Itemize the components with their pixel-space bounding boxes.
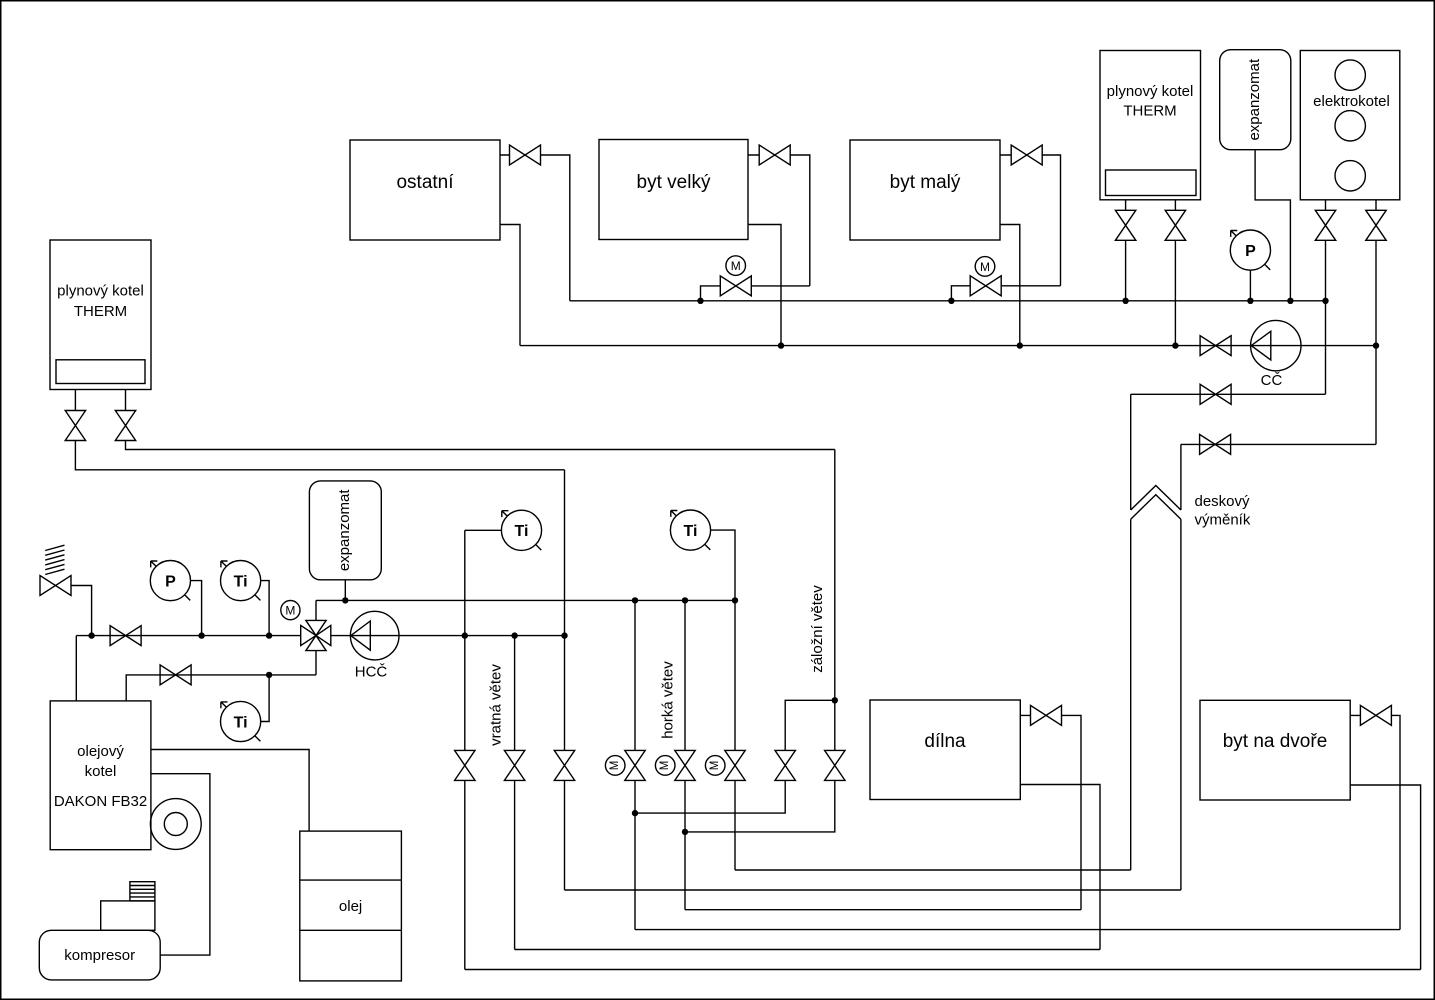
valve row branch 5 — [825, 750, 845, 780]
junction dot gauge P left — [198, 632, 204, 638]
wire dilna return line — [1020, 785, 1100, 950]
wire right gas boiler stubs and drops — [1126, 200, 1176, 346]
junction dot HCC line vratna — [462, 632, 468, 638]
thermometer Ti2 — [221, 701, 261, 741]
wire horka vetev column 1 — [634, 600, 636, 929]
wire bottom bus 1 — [735, 869, 1131, 871]
svg-text:plynový kotel: plynový kotel — [57, 283, 144, 300]
svg-text:byt na dvoře: byt na dvoře — [1223, 731, 1328, 752]
junction dot line B at elektrokotel drop — [1373, 342, 1379, 348]
motor symbol M of mixing valve — [281, 601, 300, 620]
junction dot line A at gauge P — [1247, 298, 1253, 304]
wire oil boiler main supply line — [76, 636, 301, 701]
wire byt velky supply to valve and down — [748, 155, 810, 286]
valve row vratna vetev — [455, 750, 475, 780]
svg-text:deskový: deskový — [1195, 493, 1251, 510]
burner blower circle on boiler — [150, 799, 201, 850]
svg-text:M: M — [609, 761, 621, 771]
box byt maly — [850, 140, 1000, 240]
junction dot branch 4 join — [632, 810, 638, 816]
thermometer Ti4 — [670, 510, 710, 550]
wire byt na dvore return line — [1350, 785, 1420, 970]
wire thermometer Ti4 stem — [711, 530, 735, 600]
valve dilna — [1031, 705, 1062, 725]
svg-text:olejový: olejový — [77, 743, 124, 760]
valve oil return line — [160, 665, 191, 685]
wire boiler to oil tank — [151, 750, 309, 832]
svg-text:Ti: Ti — [234, 573, 248, 590]
junction dot zalozni top — [832, 697, 838, 703]
svg-text:HCČ: HCČ — [355, 664, 388, 681]
svg-text:P: P — [165, 573, 176, 590]
thermometer Ti1 — [221, 561, 261, 601]
svg-text:dílna: dílna — [924, 731, 966, 752]
wire pressure gauge P stem (left) — [191, 581, 202, 636]
valve row return — [554, 750, 574, 780]
junction dot line A at byt maly — [948, 298, 954, 304]
wire left boiler supply zalozni line — [126, 440, 835, 449]
box ostatni — [350, 140, 500, 240]
thermometer Ti3 — [501, 510, 541, 550]
svg-text:expanzomat: expanzomat — [336, 489, 353, 572]
svg-text:byt malý: byt malý — [890, 172, 961, 193]
oil tank olej — [300, 831, 402, 981]
wire expanzomat top connection to line A — [1255, 150, 1290, 301]
svg-text:CČ: CČ — [1261, 372, 1283, 389]
junction dot line B at byt maly — [1017, 342, 1023, 348]
valve byt maly — [1011, 145, 1042, 165]
svg-text:výměník: výměník — [1195, 512, 1251, 529]
wire pressure gauge P stem (top) — [1249, 270, 1251, 301]
motor valve row 2 — [655, 750, 695, 780]
motor valve row 3 — [705, 750, 745, 780]
wire HCC supply line — [331, 635, 565, 637]
wire safety valve line to oil main — [71, 586, 92, 636]
wire byt velky motor valve branch — [701, 286, 810, 301]
junction dot hot header M3 — [732, 597, 738, 603]
svg-text:M: M — [731, 259, 741, 273]
wire expanzomat middle stub — [344, 580, 346, 601]
junction dot line B at right boiler — [1172, 342, 1178, 348]
svg-text:P: P — [1245, 243, 1256, 260]
wire branch valve column 4 — [635, 780, 785, 813]
pressure gauge P (left) — [150, 561, 190, 601]
junction dot HCC line middle — [511, 632, 517, 638]
wire left boiler valve stubs — [75, 390, 125, 411]
compressor inlet box — [101, 901, 155, 930]
wire middle valve column — [514, 636, 516, 950]
junction dot Ti1 — [266, 632, 272, 638]
wire boiler to kompresor — [151, 774, 210, 955]
compressor kompresor — [39, 930, 160, 980]
valve row middle — [504, 750, 524, 780]
wire byt maly return down to line B — [1000, 225, 1020, 346]
wire bottom bus 5 — [515, 949, 1100, 951]
svg-text:ostatní: ostatní — [396, 172, 454, 193]
valve byt na dvore — [1360, 705, 1391, 725]
expansion vessel expanzomat (top right) — [1220, 50, 1291, 150]
valve left boiler 1 — [65, 411, 85, 441]
wire pump bypass with valve to line A — [1131, 393, 1326, 395]
wire zalozni vetev drop — [834, 450, 836, 751]
four-way mixing valve — [301, 620, 331, 650]
svg-text:M: M — [709, 761, 721, 771]
wire thermometer Ti1 stem — [261, 581, 269, 636]
wire thermometer Ti2 stem — [261, 675, 269, 722]
motor valve byt velky — [720, 256, 751, 296]
wire byt maly motor valve branch — [951, 286, 1060, 301]
electric boiler elektrokotel — [1300, 51, 1400, 200]
pump CC — [1251, 320, 1301, 389]
junction dot line A at expanzomat — [1287, 298, 1293, 304]
wire byt velky return down to line B — [748, 225, 781, 346]
valve oil main line — [110, 626, 141, 646]
svg-text:Ti: Ti — [234, 714, 248, 731]
svg-text:záložní větev: záložní větev — [809, 585, 826, 673]
valve elektrokotel 1 — [1315, 210, 1335, 240]
wire main return header line B — [520, 345, 1376, 347]
svg-text:M: M — [980, 260, 990, 274]
junction dot branch 5 join — [682, 829, 688, 835]
svg-text:Ti: Ti — [515, 523, 529, 540]
svg-text:kompresor: kompresor — [64, 947, 135, 964]
wire exchanger right riser — [1180, 444, 1182, 890]
wire exchanger left riser — [1130, 394, 1132, 870]
wire lower bypass with valve — [1181, 443, 1376, 445]
svg-text:vratná větev: vratná větev — [488, 664, 505, 746]
wire main supply header line A — [570, 300, 1326, 302]
svg-text:THERM: THERM — [74, 303, 127, 320]
box byt na dvore — [1200, 700, 1350, 800]
wire oil boiler return line — [126, 651, 316, 701]
plate heat exchanger deskovy vymenik — [1131, 486, 1251, 529]
valve right boiler 1 — [1115, 210, 1135, 240]
junction dot line A at right boiler — [1122, 298, 1128, 304]
svg-text:elektrokotel: elektrokotel — [1313, 93, 1390, 110]
junction dot Ti2 on return — [266, 672, 272, 678]
svg-text:DAKON FB32: DAKON FB32 — [54, 793, 147, 810]
junction dot line A at elektrokotel drop — [1322, 298, 1328, 304]
motor valve byt maly — [970, 257, 1001, 296]
box byt velky — [599, 140, 748, 240]
svg-text:kotel: kotel — [85, 763, 117, 780]
wire byt na dvore supply valve line — [1350, 715, 1400, 929]
pressure gauge P (top right) — [1230, 230, 1270, 270]
junction dot line A at ostatni return — [697, 298, 703, 304]
safety valve spring — [45, 545, 64, 574]
junction dot hot header M1 — [632, 597, 638, 603]
wire bottom bus 4 — [635, 929, 1400, 931]
wire bottom bus 2 — [565, 889, 1181, 891]
wire dilna supply valve line — [1020, 715, 1081, 909]
valve lower bypass — [1200, 434, 1231, 454]
valve left boiler 2 — [115, 411, 135, 441]
junction dot hot header M2 — [682, 597, 688, 603]
boiler plynovy kotel THERM (right) — [1100, 51, 1201, 200]
junction dot expanzomat middle — [342, 597, 348, 603]
junction dot line B at byt velky — [778, 342, 784, 348]
wire ostatni supply to valve and down to line A — [500, 155, 570, 301]
svg-text:expanzomat: expanzomat — [1246, 58, 1263, 141]
svg-text:M: M — [285, 604, 295, 618]
valve elektrokotel 2 — [1366, 210, 1386, 240]
wire byt maly supply to valve and down — [1000, 155, 1061, 286]
valve ostatni — [510, 145, 541, 165]
valve line B before pump CC — [1200, 336, 1231, 356]
junction dot safety line — [88, 632, 94, 638]
safety relief valve — [40, 576, 71, 596]
wire horka vetev column 3 — [734, 600, 736, 870]
junction dot HCC line end — [561, 632, 567, 638]
valve right boiler 2 — [1165, 210, 1185, 240]
wire mixing valve top to header — [315, 600, 317, 620]
expansion vessel expanzomat (middle) — [309, 481, 381, 580]
svg-text:M: M — [659, 761, 671, 771]
valve row branch 4 — [775, 750, 795, 780]
oil boiler olejovy kotel DAKON FB32 — [50, 701, 151, 850]
wire bottom bus 3 — [685, 909, 1081, 911]
wire branch valve column 5 — [685, 780, 835, 832]
pump HCC — [350, 611, 399, 680]
compressor filter hatch — [130, 882, 155, 901]
svg-text:olej: olej — [339, 898, 362, 915]
motor valve row 1 — [605, 750, 645, 780]
boiler plynovy kotel THERM (left) — [50, 240, 151, 390]
wire vratna vetev column — [464, 530, 466, 969]
wire return valve column — [564, 470, 566, 890]
svg-text:Ti: Ti — [684, 523, 698, 540]
wire hot header line to motor valves — [316, 599, 735, 601]
wire zalozni branch to second valve — [785, 700, 835, 750]
svg-text:byt velký: byt velký — [637, 172, 711, 193]
wire thermometer Ti3 stem — [465, 529, 502, 531]
box dilna — [870, 700, 1020, 800]
svg-text:horká větev: horká větev — [660, 661, 677, 739]
wire left boiler return line to valve column — [75, 440, 564, 469]
wire horka vetev column 2 — [684, 600, 686, 909]
svg-text:THERM: THERM — [1123, 103, 1176, 120]
wire ostatni return down to line B — [500, 225, 520, 346]
svg-text:plynový kotel: plynový kotel — [1107, 83, 1194, 100]
wire elektrokotel stubs and drops — [1326, 200, 1377, 445]
valve pump bypass — [1200, 384, 1231, 404]
wire bottom bus 6 — [465, 969, 1421, 971]
valve byt velky — [759, 145, 790, 165]
